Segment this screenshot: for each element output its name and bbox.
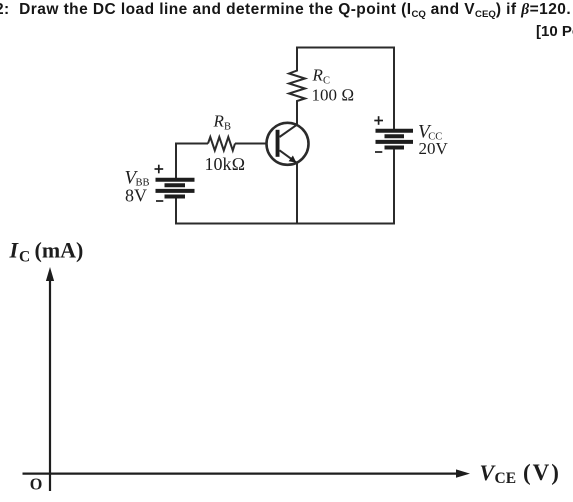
resistor RC (289, 47, 305, 125)
wire VBB bottom lead (175, 198, 177, 225)
wire VBB top lead (175, 143, 177, 179)
plus sign VCC (374, 116, 383, 125)
svg-text:(V): (V) (523, 460, 561, 485)
battery VCC (376, 131, 414, 148)
svg-text:B: B (224, 122, 231, 133)
battery VBB (156, 180, 195, 197)
wire emitter to bottom rail (296, 163, 298, 223)
svg-text:O: O (30, 474, 43, 493)
svg-text:100 Ω: 100 Ω (312, 86, 355, 105)
question text line 1 (0, 1, 571, 20)
wire bottom rail (175, 223, 395, 225)
svg-text:20V: 20V (419, 139, 449, 158)
minus sign VBB (156, 200, 163, 202)
label RB value (205, 112, 246, 175)
svg-text:10kΩ: 10kΩ (205, 154, 246, 174)
label VCC value (418, 122, 449, 159)
wire top rail (296, 47, 395, 49)
label IC (mA) (9, 238, 84, 266)
axis IC vertical (46, 267, 54, 491)
wire base right segment (235, 143, 267, 145)
label VCE (V) (480, 460, 561, 487)
transistor Q1 (267, 123, 309, 165)
svg-text:I: I (9, 238, 20, 263)
plus sign VBB (155, 165, 164, 174)
wire VCC top lead (393, 47, 395, 130)
label VBB value (125, 168, 150, 206)
question text line 2 marks (536, 23, 573, 40)
axis VCE horizontal (23, 469, 471, 477)
svg-text:(mA): (mA) (35, 238, 84, 263)
svg-text:C: C (19, 248, 30, 265)
svg-text:R: R (312, 66, 324, 85)
resistor RB (208, 137, 235, 151)
svg-text:8V: 8V (125, 186, 147, 206)
wire base left segment (176, 143, 208, 145)
svg-text:CE: CE (495, 470, 517, 487)
label RC value (312, 66, 355, 105)
minus sign VCC (375, 151, 382, 153)
svg-text:R: R (213, 112, 225, 131)
wire VCC bottom lead (393, 149, 395, 225)
